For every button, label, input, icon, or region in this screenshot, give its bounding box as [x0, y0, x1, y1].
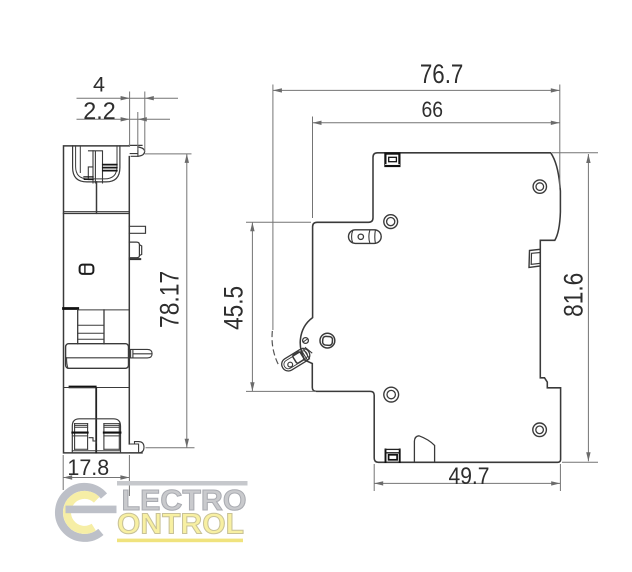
dim 4 extension lines — [130, 92, 145, 153]
hatch right cavity — [103, 165, 117, 171]
svg-text:ONTROL: ONTROL — [117, 509, 244, 541]
bottom terminal block — [72, 419, 120, 452]
logo big e gray ring — [59, 487, 104, 538]
dim 81.6 line — [587, 154, 589, 461]
svg-text:17.8: 17.8 — [67, 455, 109, 480]
cavity left jaw line — [79, 146, 81, 173]
top terminal cavity outer — [73, 146, 120, 182]
dim 66 line — [313, 122, 560, 124]
dim 45.5 extensions — [246, 222, 316, 391]
svg-text:4: 4 — [93, 72, 105, 96]
side tab small (flag terminal) — [129, 226, 145, 233]
hatch left small — [84, 177, 93, 180]
bottom right hook — [129, 442, 144, 453]
dim 66 extension — [312, 117, 314, 219]
pivot pin small — [303, 338, 309, 344]
svg-text:66: 66 — [422, 97, 444, 122]
svg-text:2.2: 2.2 — [83, 98, 115, 125]
svg-text:78.17: 78.17 — [155, 271, 185, 328]
rivet D (lower left) — [384, 387, 399, 402]
arrowheads — [63, 88, 590, 485]
dim 78.17 extensions — [145, 154, 195, 448]
svg-text:45.5: 45.5 — [218, 286, 248, 330]
dim 2.2 extension line — [137, 112, 139, 150]
top mounting tab — [129, 145, 144, 156]
rivet A (upper left) — [384, 215, 398, 229]
center line top section — [96, 182, 98, 213]
logo big e yellow ring — [67, 495, 97, 530]
body outline side view — [300, 153, 560, 463]
dim 49.7 line — [374, 482, 560, 484]
handle upper dark ledge — [64, 307, 78, 310]
dim 81.6 extensions — [552, 153, 598, 463]
arrows dim 78.17 — [185, 154, 189, 163]
center dark line bottom — [95, 388, 97, 453]
divider 1 — [64, 211, 130, 213]
dim 49.7 extensions — [374, 464, 560, 491]
handle base — [66, 344, 129, 369]
toggle pin right — [129, 349, 153, 358]
dim 78.17 line — [186, 154, 188, 448]
body outline left view — [64, 146, 143, 453]
svg-text:49.7: 49.7 — [449, 463, 490, 490]
dashed travel arc — [272, 332, 278, 365]
rivet E (lower right) — [533, 423, 547, 437]
notch center-left — [89, 438, 96, 443]
rivet C (center with square hole) — [320, 333, 335, 348]
back clip tab (right side) — [529, 249, 540, 267]
arrows dim 2.2 — [121, 117, 130, 121]
oval slot — [349, 230, 382, 244]
handle stem — [78, 310, 104, 344]
dim 2.2 line — [77, 118, 171, 120]
dim 4 line — [77, 97, 179, 99]
arrows dim 4 — [121, 96, 130, 100]
logo e bar — [66, 506, 117, 514]
dim 17.8 extensions — [63, 455, 129, 496]
side tab large — [129, 242, 141, 258]
DIN clip top — [385, 154, 399, 166]
arrows dim 81.6 — [586, 154, 590, 163]
arrows dim 49.7 — [374, 481, 383, 485]
actuator lever — [279, 346, 312, 373]
logo underline — [117, 539, 243, 543]
rivet B (upper right) — [533, 180, 546, 193]
dim 76.7 extensions — [273, 85, 560, 331]
arrows dim 17.8 — [63, 475, 72, 479]
screw shaft — [93, 151, 103, 183]
clamp block — [88, 151, 93, 180]
top terminal cavity inner — [76, 146, 117, 179]
dim 17.8 line — [63, 477, 129, 479]
dim 76.7 line — [273, 89, 560, 91]
svg-text:76.7: 76.7 — [420, 59, 464, 89]
arrows dim 45.5 — [250, 222, 254, 231]
arrows dim 76.7 — [273, 88, 282, 92]
small window with latch — [80, 265, 94, 274]
svg-text:81.6: 81.6 — [558, 273, 588, 317]
DIN clip bottom — [386, 449, 400, 462]
dim 45.5 line — [251, 222, 253, 391]
bottom hook bump — [414, 436, 434, 462]
dimension labels — [67, 59, 588, 490]
logo top bar — [117, 481, 248, 486]
divider 2 dark — [70, 386, 95, 389]
arrows dim 66 — [313, 121, 322, 125]
